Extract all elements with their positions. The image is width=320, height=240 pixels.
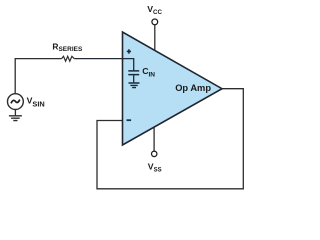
svg-text:Op Amp: Op Amp (175, 83, 211, 93)
